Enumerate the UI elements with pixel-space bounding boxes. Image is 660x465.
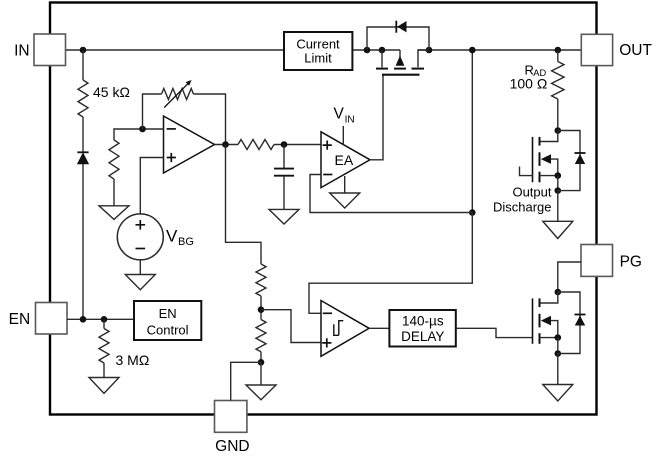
svg-text:Output: Output [512,184,551,199]
junction output discharge Q2 drain [555,127,562,134]
PG pulldown Q3 body diode [575,315,586,326]
svg-text:Current: Current [296,36,340,51]
pass transistor Q1 body arrow [396,50,405,66]
junction divider ground node [258,359,265,366]
svg-text:GND: GND [215,438,249,455]
wire EA feedback [310,175,472,213]
svg-text:Control: Control [147,322,189,337]
comparator U2 [321,301,369,357]
ground U1 inv [99,206,129,220]
delay block 140us [389,310,455,347]
wire delay-PGgate [456,328,533,337]
output discharge Q2 channel bar [539,137,541,182]
diode EN-IN [77,152,88,163]
svg-text:Discharge: Discharge [493,200,552,215]
svg-text:EN: EN [159,306,177,321]
pass transistor Q1 contact bars [376,68,424,70]
pin GND [215,401,250,455]
wire U1 noninv input [140,158,163,215]
wire IN rail [66,49,285,51]
wire VIN lead [342,126,344,145]
wire RAD stem [557,50,559,62]
pin EN [9,303,67,335]
output discharge Q2 body arrow [541,154,558,175]
output discharge label [493,184,552,214]
wire feedback vertical [471,50,473,213]
junction divider tap [258,306,265,313]
body diode loop wire [367,27,429,50]
divider resistor bottom [256,320,266,352]
junction OUT rail feedback [469,47,476,54]
svg-text:EA: EA [335,152,354,168]
ground Q2 [543,221,573,238]
PG pulldown Q3 drain lead [540,292,558,303]
ground Q3 [543,385,573,402]
body diode D1 [396,21,406,33]
wire U1 inverting input [114,129,164,140]
wire divider-gndnode [260,352,262,363]
wire tap-comparator [261,310,321,343]
svg-text:V: V [166,226,178,245]
wire 3M-gnd [103,363,105,378]
junction cap node [281,141,288,148]
wire output discharge Q2 diode branch [558,131,580,191]
junction EN-3M [101,316,108,323]
output discharge Q2 gate bar [532,137,534,182]
junction output discharge Q2 diode node [555,187,562,194]
svg-text:V: V [334,106,345,123]
junction U1 inv node [139,126,146,133]
junction PG pulldown Q3 diode node [555,350,562,357]
resistor 3 MOhm [99,329,149,369]
pass transistor Q1 drain leg [418,50,429,67]
wire U1 output [215,144,239,146]
wire U1out-divider [226,145,262,265]
junction RAD tap [555,47,562,54]
svg-text:PG: PG [620,254,642,271]
svg-text:DELAY: DELAY [401,329,444,344]
wire output discharge Q2 source-diode [557,176,559,191]
pin OUT [581,34,652,65]
output discharge Q2 body diode [575,153,586,164]
wire diode-EN [82,164,84,320]
current limit block [284,32,352,70]
svg-text:IN: IN [345,114,355,125]
wire PG pulldown Q3 source-diode [557,338,559,354]
variable resistor trim [162,80,194,108]
IC boundary [50,3,597,415]
EN control block [134,301,201,340]
svg-text:3 MΩ: 3 MΩ [116,352,150,368]
wire comparator output [369,327,389,329]
wire R-gnd [113,179,115,206]
ground 3M [89,378,119,394]
junction EN-diode [80,316,87,323]
wire Q3-gnd [557,354,559,385]
junction feedback tap [469,209,476,216]
wire 45k stem [82,50,84,80]
divider resistor top [256,264,266,296]
svg-text:140-µs: 140-µs [402,313,444,328]
VIN label [334,106,355,126]
wire divider mid [260,296,262,320]
junction U1 output [222,141,229,148]
PG pulldown Q3 body arrow [541,316,558,338]
wire 45k-diode [82,117,84,152]
resistor RAD 100 Ohm [510,62,564,100]
junction PG pulldown Q3 source [555,334,562,341]
voltage source VBG [117,214,194,260]
error amplifier EA [321,132,370,188]
junction pass drain [426,47,433,54]
ground divider [246,385,276,400]
PG pulldown Q3 channel bar [539,298,541,343]
wire cap-gnd [283,176,285,210]
wire Q2 gate stub [520,167,533,176]
ground VBG [125,275,155,290]
svg-text:OUT: OUT [619,42,652,59]
wire gndnode stem [260,362,262,385]
svg-text:Limit: Limit [304,51,332,66]
pass transistor Q1 gate bar [382,74,420,76]
wire EN rail [67,318,134,320]
wire Q2-gnd [557,191,559,222]
svg-text:100 Ω: 100 Ω [510,76,548,92]
capacitor filter [274,169,294,176]
wire gndnode-GNDpin [231,362,261,400]
wire VBG-gnd [139,260,141,275]
wire R-EA [274,144,321,146]
junction output discharge Q2 source [555,172,562,179]
pass transistor Q1 source leg [381,50,383,67]
op-amp U1 [164,116,215,173]
wire trim branch [143,94,162,129]
wire RAD-Q2 [557,99,559,131]
ground EA [330,193,360,208]
svg-text:BG: BG [178,236,194,248]
pin PG [581,245,642,277]
wire EA ground stem [344,176,346,193]
ground cap [269,209,299,224]
PG pulldown Q3 source lead [540,337,558,339]
junction pass source [379,47,386,54]
wire pass-FET drain rail [418,49,581,51]
wire comparator sense [309,213,472,314]
junction PG pulldown Q3 drain [555,289,562,296]
output discharge Q2 source lead [540,175,558,177]
wire 3M stem [103,319,105,328]
junction IN node [80,47,87,54]
PG pulldown Q3 gate bar [532,298,534,343]
resistor 45 kOhm [78,80,130,117]
wire pass-FET source rail [352,49,400,51]
pin IN [14,34,65,66]
resistor U1-EA [238,140,274,150]
wire cap stem [283,145,285,169]
svg-text:45 kΩ: 45 kΩ [93,84,130,100]
wire trim-out [194,94,226,145]
wire EA output [370,76,383,160]
output discharge Q2 drain lead [540,131,558,142]
svg-text:IN: IN [14,42,30,59]
resistor U1 inv-gnd [109,140,119,179]
wire PG pin lead [558,262,581,292]
wire PG pulldown Q3 diode branch [558,292,580,354]
junction pass body-diode left [364,47,371,54]
svg-text:EN: EN [9,311,31,328]
